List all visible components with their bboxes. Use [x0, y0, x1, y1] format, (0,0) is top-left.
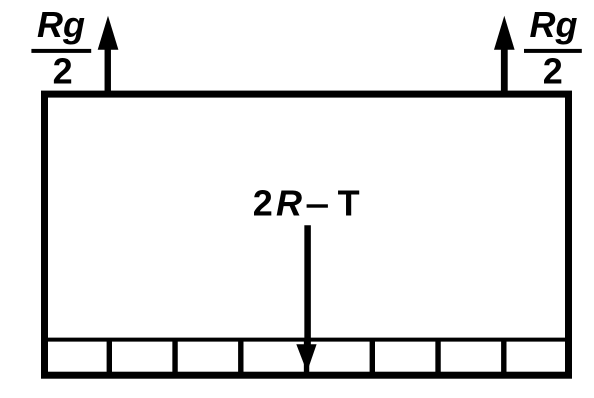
- strip divider 7: [501, 340, 506, 372]
- label 2R - T : minus sign: [307, 204, 328, 207]
- svg-text:2: 2: [543, 51, 563, 92]
- strip divider 3: [238, 340, 243, 372]
- label Rg/2 left : fraction bar: [31, 49, 91, 53]
- svg-text:T: T: [338, 182, 360, 223]
- svg-text:R: R: [276, 182, 302, 223]
- footing strip top line: [44, 338, 569, 342]
- beam outline rectangle: [45, 94, 569, 375]
- strip divider 1: [107, 340, 112, 372]
- strip divider 6: [435, 340, 440, 372]
- svg-text:2: 2: [253, 182, 273, 223]
- label Rg/2 right : fraction bar: [524, 49, 582, 53]
- strip divider 5: [370, 340, 375, 372]
- center load arrow (down): [296, 225, 316, 372]
- strip divider 4: [304, 340, 309, 372]
- strip divider 2: [172, 340, 177, 372]
- svg-text:2: 2: [53, 51, 73, 92]
- left reaction arrow (up): [98, 16, 119, 94]
- right reaction arrow (up): [494, 16, 515, 94]
- svg-text:Rg: Rg: [37, 4, 85, 45]
- svg-text:Rg: Rg: [530, 4, 578, 45]
